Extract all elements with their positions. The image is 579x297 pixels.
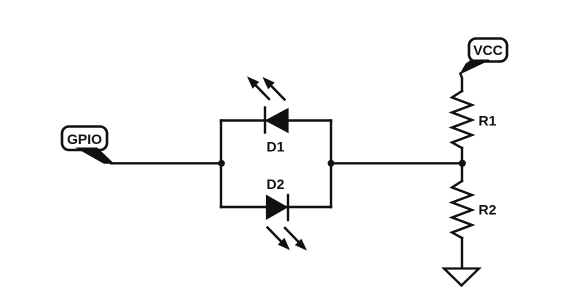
node right junction bbox=[328, 160, 335, 167]
wire R2 to ground bbox=[461, 238, 463, 269]
LED D1 bbox=[247, 76, 288, 154]
GPIO net label bbox=[62, 127, 113, 164]
wire R1 to node bbox=[461, 148, 463, 163]
resistor R1 bbox=[452, 91, 497, 148]
svg-text:D2: D2 bbox=[267, 176, 285, 192]
wire bottom branch bbox=[221, 206, 331, 208]
wire top branch bbox=[221, 119, 331, 121]
resistor R2 bbox=[452, 181, 497, 238]
LED D2 bbox=[267, 176, 308, 250]
VCC power label bbox=[460, 39, 507, 74]
node left junction bbox=[218, 160, 225, 167]
wire right branch vertical bbox=[330, 121, 332, 208]
svg-text:R2: R2 bbox=[479, 201, 497, 217]
wire node to R2 bbox=[461, 163, 463, 181]
node divider junction bbox=[459, 160, 466, 167]
svg-text:GPIO: GPIO bbox=[67, 131, 102, 147]
ground bbox=[444, 269, 479, 286]
svg-text:VCC: VCC bbox=[473, 42, 503, 58]
wire VCC to R1 bbox=[460, 74, 462, 91]
wire right node to divider node bbox=[331, 162, 463, 164]
wire left branch vertical bbox=[220, 121, 222, 208]
svg-text:R1: R1 bbox=[479, 112, 497, 128]
svg-text:D1: D1 bbox=[267, 138, 285, 154]
wire GPIO to left node bbox=[111, 162, 221, 164]
